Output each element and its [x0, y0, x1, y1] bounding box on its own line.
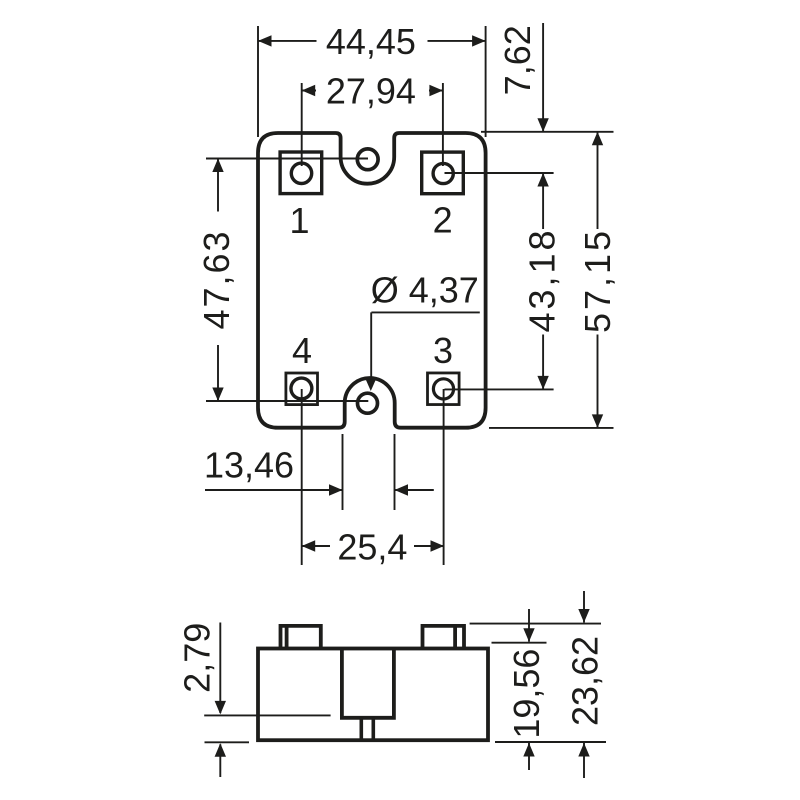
- svg-text:2,79: 2,79: [177, 623, 218, 693]
- svg-text:3: 3: [433, 330, 453, 371]
- svg-text:1: 1: [289, 200, 309, 241]
- svg-text:44,45: 44,45: [326, 21, 416, 62]
- svg-text:7,62: 7,62: [497, 25, 538, 95]
- svg-text:23,62: 23,62: [565, 636, 606, 726]
- svg-text:43,18: 43,18: [521, 231, 562, 333]
- svg-text:27,94: 27,94: [326, 71, 416, 112]
- svg-text:57,15: 57,15: [577, 231, 618, 333]
- svg-text:2: 2: [433, 199, 453, 240]
- svg-text:Ø 4,37: Ø 4,37: [371, 269, 479, 310]
- svg-text:4: 4: [292, 330, 312, 371]
- svg-text:25,4: 25,4: [337, 526, 407, 567]
- svg-text:13,46: 13,46: [204, 445, 294, 486]
- svg-text:47,63: 47,63: [196, 232, 237, 330]
- svg-text:19,56: 19,56: [506, 649, 547, 739]
